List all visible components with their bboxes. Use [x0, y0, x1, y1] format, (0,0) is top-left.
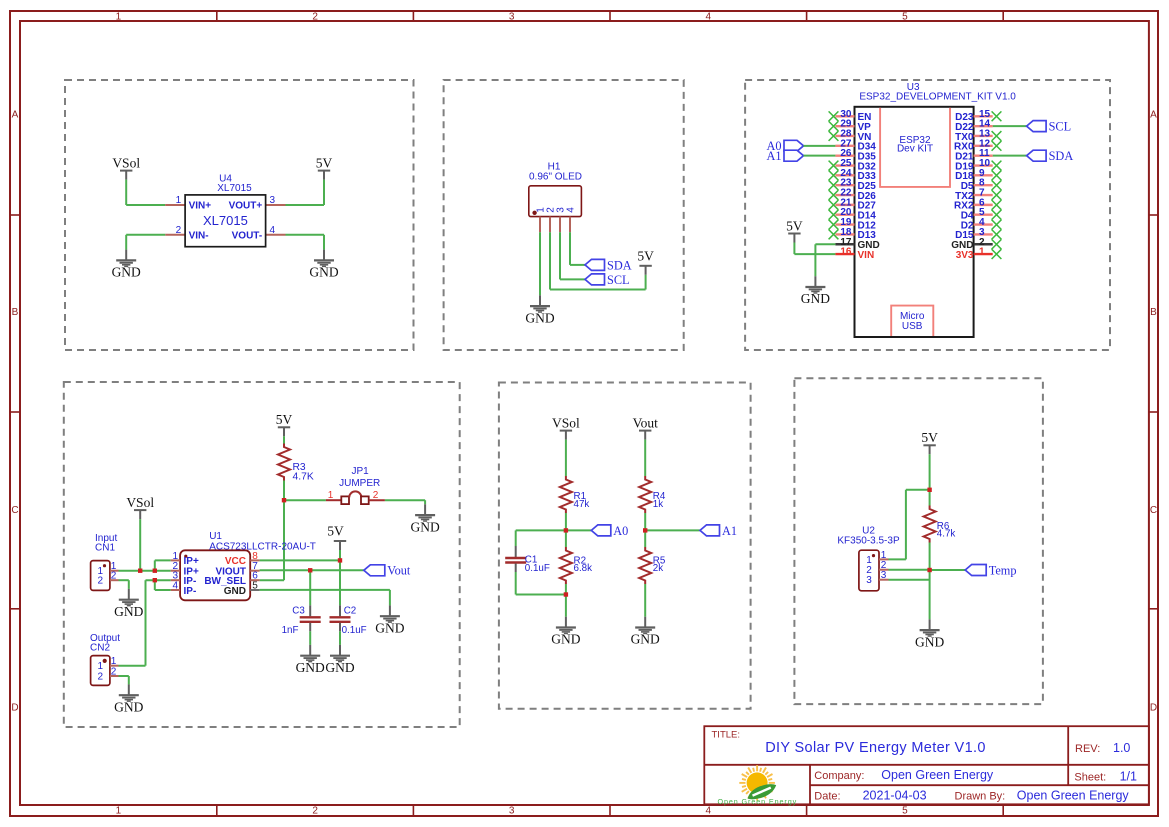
svg-text:2k: 2k [653, 563, 663, 574]
svg-text:USB: USB [902, 321, 923, 332]
svg-text:5V: 5V [316, 155, 333, 170]
ground symbol (C3) [296, 645, 325, 675]
svg-text:XL7015: XL7015 [217, 183, 252, 194]
title block row divider 2 [810, 784, 1149, 786]
wire C1 branch top [516, 530, 566, 546]
svg-text:VOUT+: VOUT+ [229, 201, 263, 212]
U3 pin 6 RX2 stub [974, 204, 993, 206]
U1 right pin 7 stub [250, 570, 259, 572]
svg-text:5V: 5V [921, 430, 938, 445]
column numbers bottom [116, 806, 909, 817]
net label SDA (ESP32) [1027, 150, 1047, 161]
wire C1 branch bottom [516, 572, 566, 595]
no-connect flag U3 pin 9 [992, 170, 1002, 180]
svg-text:5: 5 [252, 581, 258, 592]
resistor R3 4.7K [278, 444, 290, 481]
U3 pin 4 D2 stub [974, 223, 993, 225]
U1 pin 1 marker dot [184, 555, 187, 558]
U3 pin 2 GND stub [974, 243, 993, 245]
no-connect flag U3 pin 12 [992, 141, 1002, 151]
wire R1 to A0 junction [565, 513, 567, 530]
svg-text:1: 1 [116, 806, 122, 817]
title block logo cell divider [809, 765, 811, 805]
svg-text:CN1: CN1 [95, 543, 115, 554]
wire U3 pin 14 to SCL [993, 125, 1027, 127]
wire lower junction to GND [565, 595, 567, 617]
svg-text:Sheet:: Sheet: [1074, 772, 1106, 784]
U3 pin 27 D34 stub [835, 145, 854, 147]
svg-text:C2: C2 [344, 606, 357, 617]
U2 pin names 1 2 3 [866, 555, 872, 586]
dashed box buck converter section [65, 80, 414, 350]
logo leaf slash [753, 788, 771, 796]
svg-text:3: 3 [270, 195, 276, 206]
svg-text:2: 2 [176, 225, 182, 236]
U3 pin 3 D15 stub [974, 233, 993, 235]
U1 right pin 6 stub [250, 579, 259, 581]
svg-text:47k: 47k [574, 499, 590, 510]
svg-text:REV:: REV: [1075, 743, 1100, 755]
svg-text:3V3: 3V3 [956, 250, 974, 261]
net label SCL (ESP32) [1027, 121, 1047, 132]
svg-text:IP-: IP- [184, 586, 197, 597]
connector H1 body [529, 186, 582, 217]
power flag VSol (U4 input) [112, 155, 140, 179]
wire Vout to R4 [644, 440, 646, 476]
wire H1 pin 1 to GND [539, 232, 541, 295]
no-connect flag U3 pin 3 [992, 230, 1002, 240]
power flag 5V (ESP32) [786, 218, 803, 242]
junction at R3 / JP1 / BW_SEL [282, 498, 286, 502]
net label A0 (to D34) [784, 140, 804, 151]
svg-text:D: D [1150, 703, 1157, 714]
svg-text:4.7K: 4.7K [293, 471, 314, 482]
no-connect flag U3 pin 20 [829, 210, 839, 220]
U3 pin 29 VP stub [835, 125, 854, 127]
power flag 5V (U1 VCC) [327, 524, 346, 551]
no-connect flag U3 pin 1 [992, 249, 1002, 259]
connector CN2 body [91, 656, 110, 686]
power flag 5V (OLED) [637, 248, 654, 275]
title block outline [704, 726, 1149, 804]
U3 pin 17 GND stub [835, 243, 854, 245]
svg-text:2: 2 [111, 571, 117, 582]
no-connect flag U3 pin 18 [829, 230, 839, 240]
svg-text:4: 4 [270, 225, 276, 236]
column numbers top [116, 12, 909, 23]
ground symbol (C2) [325, 645, 354, 675]
logo sun disk [747, 772, 768, 793]
svg-text:Drawn By:: Drawn By: [955, 790, 1006, 802]
svg-text:XL7015: XL7015 [203, 213, 248, 228]
power flag VSol (sensor input) [126, 495, 154, 519]
svg-text:VIN: VIN [858, 250, 875, 261]
junction IP+ tie [153, 569, 157, 573]
ground symbol below U4 pin 2 [112, 250, 141, 280]
svg-text:Dev KIT: Dev KIT [897, 144, 933, 155]
svg-text:VIN-: VIN- [189, 231, 209, 242]
svg-text:2: 2 [373, 490, 379, 501]
svg-text:B: B [12, 307, 19, 318]
wire CN2 pin 2 to GND [119, 676, 129, 684]
U2 pin 2 stub [879, 569, 889, 571]
resistor R1 47k [560, 476, 572, 513]
resistor R2 6.8k [560, 547, 572, 584]
svg-text:2: 2 [312, 806, 318, 817]
wire H1 pin 4 to SDA [570, 232, 585, 265]
dashed box voltage divider section [499, 383, 751, 709]
H1 pin 3 stub [559, 217, 561, 233]
junction VIOUT / C3 [308, 568, 312, 572]
wire R4 to A1 junction [644, 513, 646, 530]
wire JP1 pin 2 to GND [385, 500, 425, 504]
wire A1 junction to net label [645, 529, 700, 531]
ground symbol (JP1) [410, 504, 439, 534]
wire IP+ pins tie [155, 560, 171, 570]
svg-text:2: 2 [98, 671, 104, 682]
row letters right [1150, 110, 1157, 714]
svg-text:KF350-3.5-3P: KF350-3.5-3P [837, 536, 900, 547]
svg-text:6.8k: 6.8k [574, 563, 593, 574]
wire R6 to Temp junction [929, 543, 931, 571]
svg-text:0.1uF: 0.1uF [525, 563, 550, 574]
svg-text:5V: 5V [637, 248, 654, 263]
no-connect flag U3 pin 22 [829, 190, 839, 200]
sensor U1 body [180, 550, 250, 600]
no-connect flag U3 pin 6 [992, 200, 1002, 210]
svg-text:A: A [1150, 110, 1157, 121]
svg-text:16: 16 [840, 247, 852, 258]
net label Vout (sensor output) [364, 565, 385, 576]
wire junction down to U1 BW_SEL [260, 500, 284, 580]
row letters left [11, 110, 18, 714]
U3 pin 19 D12 stub [835, 223, 854, 225]
jumper JP1 [326, 491, 385, 504]
wire U4 pin 4 to GND [286, 235, 325, 250]
wire U1 GND pin to ground [260, 590, 390, 606]
resistor R4 1k [639, 476, 651, 513]
wire H1 pin 2 to 5V [550, 232, 646, 289]
column ticks top border [217, 11, 1003, 21]
ground symbol (U1 GND) [375, 605, 404, 635]
wire R3 to junction [283, 481, 285, 501]
svg-text:Company:: Company: [814, 770, 864, 782]
U3 inner outline ESP32 module [880, 108, 950, 187]
U1 left pin 4 stub [171, 589, 180, 591]
svg-text:1nF: 1nF [282, 625, 299, 636]
wire C2 to GND [339, 631, 341, 645]
svg-text:4: 4 [706, 806, 712, 817]
wire A0 junction to net label [566, 529, 591, 531]
svg-text:A1: A1 [722, 524, 737, 538]
wire 5V to R3 [283, 436, 285, 443]
power flag VSol (divider) [552, 415, 580, 439]
junction R1/R2/A0 [564, 528, 568, 532]
U3 pin 14 D22 stub [974, 125, 993, 127]
svg-text:GND: GND [224, 586, 246, 597]
svg-text:D: D [11, 703, 18, 714]
svg-text:JP1: JP1 [351, 466, 369, 477]
junction VSol / CN1 pin 1 [138, 569, 142, 573]
svg-text:GND: GND [551, 632, 580, 647]
svg-text:SCL: SCL [607, 273, 630, 287]
ground symbol (CN2) [114, 684, 143, 714]
ground symbol (CN1) [114, 589, 143, 619]
svg-text:5V: 5V [276, 412, 293, 427]
wire U4 pin 2 to GND [126, 235, 165, 250]
row ticks right border [1149, 215, 1158, 609]
U3 pin 22 D26 stub [835, 194, 854, 196]
wire VSol down to IP+ rail [139, 519, 141, 571]
junction R6 / U2 pin 2 / Temp [927, 568, 931, 572]
svg-text:GND: GND [915, 634, 944, 649]
CN1 pin 2 stub [110, 579, 119, 581]
U3 pin 28 VN stub [835, 135, 854, 137]
svg-text:3: 3 [866, 575, 872, 586]
no-connect flag U3 pin 15 [992, 111, 1002, 121]
capacitor C1 0.1uF [505, 546, 526, 572]
U1 right pin 5 stub [250, 589, 259, 591]
U3 pin 1 3V3 stub [974, 253, 993, 255]
U3 pin 18 D13 stub [835, 233, 854, 235]
junction VCC / C2 [338, 558, 342, 562]
connector U2 body [859, 550, 879, 591]
wire R5 to GND [644, 584, 646, 617]
U3 pin 9 D18 stub [974, 174, 993, 176]
net label A1 (to D35) [784, 150, 804, 161]
wire CN1 pin 1 to U1 IP+ [119, 570, 171, 572]
svg-text:5: 5 [902, 806, 908, 817]
logo leaf [748, 784, 777, 799]
power flag 5V (temp sensor) [921, 430, 938, 454]
no-connect flag U3 pin 30 [829, 111, 839, 121]
svg-text:1: 1 [176, 195, 182, 206]
wire U3 pin 17 GND down [815, 244, 835, 276]
U3 pin 7 TX2 stub [974, 194, 993, 196]
U2 pin 1 marker dot [872, 554, 875, 557]
svg-text:Vout: Vout [633, 415, 659, 430]
U3 pin 5 D4 stub [974, 214, 993, 216]
wire U2 pin 3 to GND [889, 570, 930, 619]
net label A0 (divider tap) [591, 525, 611, 536]
ground symbol (ESP32) [801, 276, 830, 306]
no-connect flag U3 pin 5 [992, 210, 1002, 220]
capacitor C2 0.1uF [330, 605, 351, 631]
svg-text:Open Green Energy: Open Green Energy [881, 768, 994, 782]
power flag 5V (R3 pull-up) [276, 412, 293, 436]
svg-text:GND: GND [296, 660, 325, 675]
U3 pin 25 D32 stub [835, 164, 854, 166]
svg-text:0.96" OLED: 0.96" OLED [529, 172, 582, 183]
U3 micro USB outline [891, 306, 933, 336]
ground symbol (R2) [551, 617, 580, 647]
H1 pin 2 stub [549, 217, 551, 233]
net label SDA (OLED) [585, 259, 605, 270]
svg-text:B: B [1150, 307, 1157, 318]
column ticks bottom border [217, 805, 1003, 816]
svg-text:A1: A1 [766, 149, 781, 163]
ground symbol (R5) [631, 617, 660, 647]
U1 left pin 2 stub [171, 570, 180, 572]
CN1 pin 1 stub [110, 570, 119, 572]
svg-text:GND: GND [114, 604, 143, 619]
no-connect flag U3 pin 19 [829, 220, 839, 230]
U3 pin 13 TX0 stub [974, 135, 993, 137]
svg-text:2: 2 [98, 576, 104, 587]
svg-text:4: 4 [172, 581, 178, 592]
U3 pin 12 RX0 stub [974, 145, 993, 147]
U4 pin 4 stub [266, 234, 286, 236]
module U3 body [855, 107, 974, 337]
U3 pin 11 D21 stub [974, 154, 993, 156]
U1 pin names IP+ IP+ IP- IP- [184, 556, 199, 597]
ground symbol below U4 pin 4 [309, 250, 338, 280]
H1 pin 1 marker dot [532, 211, 536, 215]
H1 pin 1 stub [539, 217, 541, 233]
wire A1 to U3 pin 26 [804, 155, 836, 157]
net label Temp [965, 565, 986, 576]
U1 right pin 8 stub [250, 559, 259, 561]
U3 pin 23 D25 stub [835, 184, 854, 186]
U1 left pin 1 stub [171, 559, 180, 561]
wire VIOUT junction down to C3 [309, 570, 311, 605]
wire R1 junction to R2 [565, 530, 567, 547]
svg-text:5V: 5V [786, 218, 803, 233]
junction 5V / U2 pin 1 / R6 [927, 488, 931, 492]
svg-text:VOUT-: VOUT- [232, 231, 263, 242]
no-connect flag U3 pin 8 [992, 180, 1002, 190]
svg-text:VIN+: VIN+ [189, 201, 212, 212]
dashed box temperature sensor section [794, 378, 1043, 704]
wire A0 to U3 pin 27 [804, 145, 836, 147]
CN2 pin 1 stub [110, 665, 119, 667]
wire R4 junction to R5 [644, 530, 646, 547]
svg-text:A: A [12, 110, 19, 121]
junction R4/R5/A1 [643, 528, 647, 532]
U1 pin numbers left 1-4 [172, 551, 178, 592]
row ticks left border [10, 215, 20, 609]
U4 pin 1 stub [165, 204, 185, 206]
power flag 5V (U4 output) [316, 155, 333, 179]
no-connect flag U3 pin 25 [829, 161, 839, 171]
svg-text:1: 1 [979, 247, 985, 258]
wire C3 to GND [309, 631, 311, 645]
capacitor C3 1nF [300, 605, 321, 631]
svg-text:1.0: 1.0 [1113, 741, 1130, 755]
svg-text:GND: GND [525, 310, 554, 325]
U3 pin 21 D27 stub [835, 204, 854, 206]
svg-text:CN2: CN2 [90, 642, 110, 653]
svg-text:2021-04-03: 2021-04-03 [863, 788, 927, 802]
U2 pin 3 stub [879, 579, 889, 581]
wire U1 VCC to 5V rail [260, 559, 340, 561]
svg-text:TITLE:: TITLE: [712, 730, 741, 741]
svg-text:SCL: SCL [1049, 120, 1072, 134]
svg-text:2: 2 [312, 12, 318, 23]
svg-text:GND: GND [114, 699, 143, 714]
no-connect flag U3 pin 24 [829, 170, 839, 180]
svg-text:VSol: VSol [552, 415, 580, 430]
U3 pin 8 D5 stub [974, 184, 993, 186]
wire U4 pin 3 to 5V [286, 180, 325, 205]
svg-text:GND: GND [112, 265, 141, 280]
CN1 pin 1 marker dot [103, 564, 106, 567]
regulator U4 body [185, 195, 266, 247]
no-connect flag U3 pin 4 [992, 220, 1002, 230]
U3 pin 26 D35 stub [835, 154, 854, 156]
svg-text:GND: GND [309, 265, 338, 280]
no-connect flag U3 pin 13 [992, 131, 1002, 141]
svg-text:Open Green Energy: Open Green Energy [1017, 788, 1130, 802]
dashed box ESP32 section [745, 80, 1110, 350]
wire U3 pin 11 to SDA [993, 155, 1027, 157]
ground symbol below H1 [525, 295, 554, 325]
svg-text:1/1: 1/1 [1120, 770, 1137, 784]
wire CN1 pin 2 to GND [119, 580, 129, 589]
svg-text:Date:: Date: [814, 790, 840, 802]
H1 pin 4 stub [569, 217, 571, 233]
svg-text:Temp: Temp [989, 563, 1017, 577]
wire U2 pin 2 to junction [889, 569, 930, 571]
title block REV/Sheet divider [1067, 726, 1069, 785]
junction R2/C1/GND [564, 592, 568, 596]
svg-text:SDA: SDA [1049, 149, 1074, 163]
svg-text:VSol: VSol [126, 495, 154, 510]
wire U1 VIOUT to Vout label [260, 569, 364, 571]
svg-text:Vout: Vout [387, 564, 411, 578]
U2 pin 1 stub [879, 558, 889, 560]
wire junction to JP1 pin 1 [284, 499, 326, 501]
svg-text:DIY Solar PV Energy Meter V1.0: DIY Solar PV Energy Meter V1.0 [765, 740, 986, 756]
wire 5V to U3 pin 16 VIN [794, 243, 835, 255]
wire junction to U2 pin 1 [889, 490, 930, 560]
svg-text:C: C [1150, 505, 1157, 516]
U3 pin 16 VIN stub [835, 253, 854, 255]
U3 pin 30 EN stub [835, 115, 854, 117]
connector CN1 body [91, 561, 110, 591]
no-connect flag U3 pin 2 [992, 239, 1002, 249]
svg-text:0.1uF: 0.1uF [342, 625, 367, 636]
wire junction to Temp label [930, 569, 966, 571]
wire 5V to junction [929, 454, 931, 490]
wire 5V junction to R6 [929, 490, 931, 506]
svg-text:5V: 5V [327, 524, 344, 539]
wire VSol to R1 [565, 440, 567, 476]
resistor R6 4.7k [924, 506, 936, 543]
svg-text:C: C [11, 505, 18, 516]
no-connect flag U3 pin 10 [992, 161, 1002, 171]
resistor R5 2k [639, 547, 651, 584]
svg-text:Open Green Energy: Open Green Energy [717, 797, 797, 806]
net label SCL (OLED) [585, 274, 605, 285]
svg-text:ESP32_DEVELOPMENT_KIT V1.0: ESP32_DEVELOPMENT_KIT V1.0 [859, 91, 1016, 102]
CN2 pin 1 marker dot [103, 659, 107, 663]
svg-text:5: 5 [902, 12, 908, 23]
wire H1 pin 3 to SCL [560, 232, 585, 279]
title block row divider 1 [704, 764, 1149, 766]
dashed box OLED section [444, 80, 684, 350]
svg-text:A0: A0 [613, 524, 628, 538]
svg-text:ACS723LLCTR-20AU-T: ACS723LLCTR-20AU-T [209, 541, 316, 552]
svg-text:1: 1 [328, 490, 334, 501]
dashed box current sensor section [64, 382, 460, 727]
svg-text:GND: GND [801, 291, 830, 306]
power flag Vout (divider) [633, 415, 659, 439]
no-connect flag U3 pin 21 [829, 200, 839, 210]
ground symbol (U2) [915, 619, 944, 649]
svg-text:2: 2 [111, 667, 117, 678]
wire IP- pins tie [155, 580, 171, 590]
